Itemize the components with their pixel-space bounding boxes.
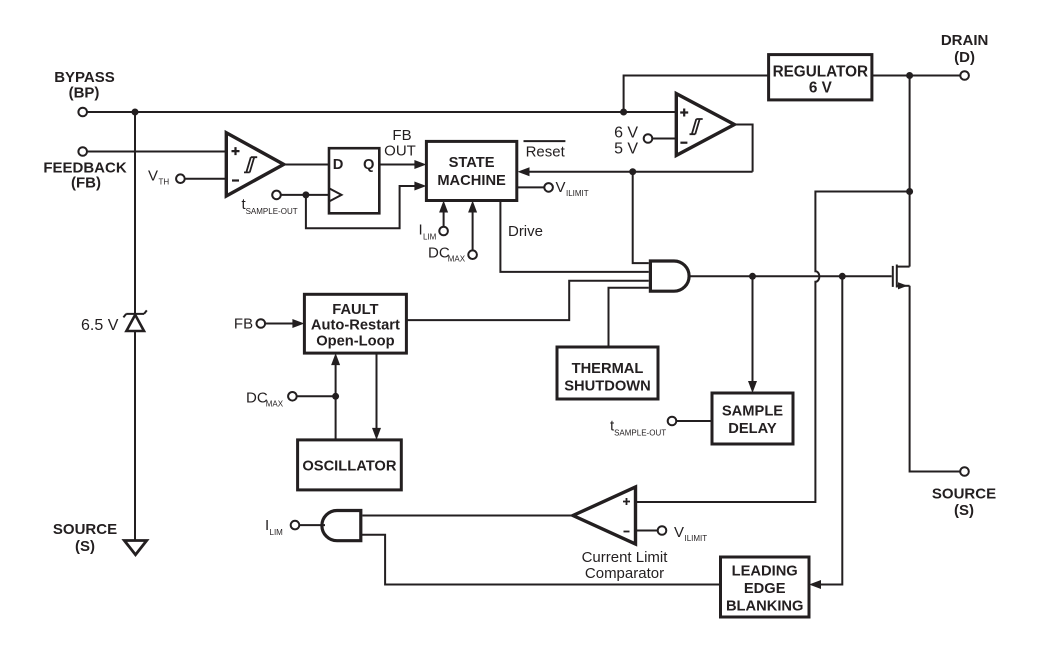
plus input mark U3 <box>623 498 630 505</box>
svg-text:V: V <box>674 524 684 541</box>
terminal t SAMPLE-OUT bottom <box>668 417 677 426</box>
wire Drive <box>500 201 648 272</box>
svg-text:FB: FB <box>392 127 411 144</box>
wire to leading edge blanking <box>821 276 843 584</box>
svg-text:SOURCE: SOURCE <box>932 486 996 503</box>
svg-text:Q: Q <box>363 157 374 173</box>
op-amp regulator comparator U2 <box>676 94 734 156</box>
svg-text:SOURCE: SOURCE <box>53 521 117 538</box>
svg-text:D: D <box>333 157 344 173</box>
terminal ILIM top <box>439 227 448 236</box>
arrowhead into state machine upper <box>414 160 426 169</box>
wire 6V5V to comparator minus <box>652 138 676 140</box>
svg-text:Reset: Reset <box>526 144 566 161</box>
svg-text:(FB): (FB) <box>71 175 101 192</box>
svg-text:Open-Loop: Open-Loop <box>316 334 394 350</box>
svg-text:STATE: STATE <box>449 155 495 171</box>
terminal DCMAX top <box>468 250 477 259</box>
wire VILIMIT top <box>517 186 545 188</box>
arrowhead into state machine lower <box>414 182 426 191</box>
node clock junction <box>302 191 309 198</box>
wire ILIM to G2 <box>299 524 325 526</box>
svg-text:Auto-Restart: Auto-Restart <box>311 318 400 334</box>
terminal t SAMPLE-OUT top <box>272 191 281 200</box>
svg-text:BYPASS: BYPASS <box>54 69 115 86</box>
wire U3 output to gate G2 <box>362 515 573 517</box>
clock triangle <box>329 188 342 201</box>
svg-text:MACHINE: MACHINE <box>437 173 506 189</box>
node LEB junction <box>839 273 846 280</box>
terminal VTH <box>176 174 185 183</box>
node drain junction <box>906 72 913 79</box>
wire fault to AND gate <box>406 281 648 320</box>
wire G1 output <box>689 275 892 277</box>
box REGULATOR 6V <box>769 55 872 100</box>
svg-text:DC: DC <box>428 245 450 262</box>
wire ILIM arrow up <box>443 212 445 227</box>
wire t sample-out to sample delay <box>676 420 712 422</box>
svg-text:LIM: LIM <box>270 528 284 537</box>
svg-text:5 V: 5 V <box>614 141 638 158</box>
flip-flop D/Q <box>329 148 379 213</box>
svg-text:TH: TH <box>159 178 170 187</box>
wire clock feedback to state machine <box>306 186 415 228</box>
wire Reset branch to AND gate <box>633 172 649 263</box>
plus input mark U1 <box>232 147 240 155</box>
node Reset junction <box>629 168 636 175</box>
wire left rail lower <box>134 331 136 541</box>
arrowhead Reset into state machine <box>518 167 530 176</box>
op-amp current limit comparator U3 <box>573 487 636 544</box>
svg-text:THERMAL: THERMAL <box>572 361 644 377</box>
svg-text:SAMPLE-OUT: SAMPLE-OUT <box>614 428 666 437</box>
svg-text:SAMPLE-OUT: SAMPLE-OUT <box>246 207 298 216</box>
svg-text:LEADING: LEADING <box>732 564 798 580</box>
svg-text:OUT: OUT <box>384 143 416 160</box>
wire oscillator to fault arrow up <box>335 364 337 440</box>
svg-text:Comparator: Comparator <box>585 565 664 582</box>
svg-text:MAX: MAX <box>448 255 466 264</box>
svg-text:BLANKING: BLANKING <box>726 599 804 615</box>
terminal VILIMIT top <box>544 183 553 192</box>
ground SOURCE arrow left <box>124 541 146 555</box>
svg-text:DELAY: DELAY <box>728 421 777 437</box>
terminal ILIM bottom <box>291 521 300 530</box>
svg-text:LIM: LIM <box>423 233 437 242</box>
terminal FB fault <box>257 319 266 328</box>
svg-text:V: V <box>556 179 566 196</box>
svg-text:Current Limit: Current Limit <box>582 549 669 566</box>
wire drain rail <box>909 76 911 267</box>
node sample-delay junction <box>749 273 756 280</box>
svg-text:6.5 V: 6.5 V <box>81 317 119 334</box>
box FAULT Auto-Restart Open-Loop <box>304 294 406 353</box>
minus input mark U3 <box>624 531 630 533</box>
wire current sense with hop <box>636 192 910 503</box>
wire FEEDBACK to comparator <box>87 151 226 153</box>
node sense junction <box>906 188 913 195</box>
svg-text:(BP): (BP) <box>69 85 100 102</box>
terminal DCMAX bottom <box>288 392 297 401</box>
and-gate G2 <box>322 511 361 541</box>
svg-text:ILIMIT: ILIMIT <box>566 189 589 198</box>
svg-text:OSCILLATOR: OSCILLATOR <box>302 458 396 474</box>
svg-text:SHUTDOWN: SHUTDOWN <box>564 379 650 395</box>
and-gate G1 <box>650 261 689 291</box>
wire DCMAX arrow up <box>472 212 474 251</box>
svg-text:FAULT: FAULT <box>332 302 378 318</box>
svg-text:ILIMIT: ILIMIT <box>685 534 708 543</box>
svg-text:(S): (S) <box>954 502 974 519</box>
svg-text:DRAIN: DRAIN <box>941 32 989 49</box>
box LEADING EDGE BLANKING <box>721 557 810 617</box>
svg-text:SAMPLE: SAMPLE <box>722 404 783 420</box>
wire clock input <box>281 194 329 196</box>
minus input mark U2 <box>680 142 687 144</box>
terminal VILIMIT bottom <box>658 526 667 535</box>
wire to sample delay <box>752 276 754 382</box>
op-amp feedback comparator U1 <box>226 133 283 196</box>
wire VTH to comparator <box>185 178 227 180</box>
terminal BYPASS <box>78 108 87 117</box>
hysteresis symbol U2 <box>690 119 703 134</box>
wire left rail upper <box>134 112 136 314</box>
svg-text:Drive: Drive <box>508 223 543 240</box>
hysteresis symbol U1 <box>244 157 257 172</box>
box OSCILLATOR <box>298 440 402 490</box>
box THERMAL SHUTDOWN <box>557 347 658 399</box>
svg-text:6 V: 6 V <box>614 124 638 141</box>
node BP junction <box>132 109 139 116</box>
svg-text:(S): (S) <box>75 538 95 555</box>
wire FB into fault box <box>265 323 293 325</box>
svg-text:MAX: MAX <box>266 399 284 408</box>
svg-text:V: V <box>148 168 158 185</box>
wire regulator to drain <box>872 75 960 77</box>
terminal FEEDBACK <box>78 147 87 156</box>
zener diode 6.5V <box>123 310 146 331</box>
wire source rail <box>910 286 961 472</box>
wire Q output <box>379 164 415 166</box>
box SAMPLE DELAY <box>712 393 793 444</box>
terminal DRAIN <box>960 71 969 80</box>
svg-text:6 V: 6 V <box>809 79 833 96</box>
minus input mark U1 <box>232 179 239 181</box>
wire BYPASS rail <box>87 111 676 113</box>
wire comparator to D flip-flop <box>284 164 329 166</box>
svg-text:DC: DC <box>246 389 268 406</box>
box STATE MACHINE <box>426 141 516 200</box>
wire U3 minus input <box>636 530 658 532</box>
svg-text:REGULATOR: REGULATOR <box>773 64 868 81</box>
svg-text:FB: FB <box>234 315 253 332</box>
wire regulator riser <box>624 76 769 113</box>
plus input mark U2 <box>680 109 688 117</box>
terminal 6V5V <box>644 134 653 143</box>
transistor Q1 MOSFET <box>893 265 910 290</box>
wire thermal to AND gate <box>609 288 649 347</box>
terminal SOURCE right <box>960 467 969 476</box>
wire fault to oscillator arrow down <box>376 353 378 429</box>
svg-text:(D): (D) <box>954 49 975 66</box>
svg-text:EDGE: EDGE <box>744 581 786 597</box>
wire U2 output feedback <box>734 125 752 172</box>
node DCMAX junction <box>332 393 339 400</box>
wire DCMAX bottom <box>297 395 336 397</box>
node regulator-branch junction <box>620 109 627 116</box>
wire Reset line <box>529 171 753 173</box>
wire G2 lower input from LEB <box>361 535 721 585</box>
